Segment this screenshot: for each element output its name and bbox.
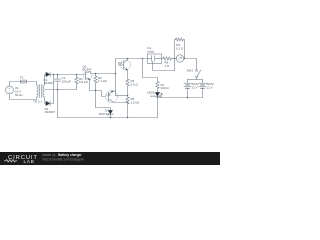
- wire battery split: [188, 79, 203, 81]
- wire switch to split: [196, 78, 198, 80]
- node LED branch tap: [142, 58, 144, 60]
- svg-text:1N4733: 1N4733: [98, 112, 109, 116]
- node R5 bus: [127, 117, 129, 119]
- wire secondary top: [45, 75, 46, 86]
- transistor Q1: [83, 71, 92, 80]
- node LED bus: [157, 97, 159, 99]
- resistor R6: [162, 57, 177, 60]
- switch SW1: [196, 70, 201, 78]
- wire center tap rail: [45, 89, 77, 91]
- label BT2: [207, 82, 215, 89]
- wire Q2 emitter drop: [127, 70, 129, 79]
- voltage source V1: [6, 86, 14, 94]
- zener D3: [108, 110, 114, 117]
- svg-text:0.5 Ω: 0.5 Ω: [131, 83, 139, 87]
- svg-text:relay: relay: [148, 49, 155, 53]
- label F1: [20, 76, 24, 80]
- svg-text:100 µF: 100 µF: [62, 80, 72, 84]
- wire Q3 collector: [113, 101, 128, 104]
- node D-join: [53, 74, 55, 76]
- label V1: [15, 86, 23, 97]
- fuse F1: [21, 80, 27, 83]
- wire fuse to transformer: [27, 82, 37, 86]
- label C1: [62, 76, 72, 83]
- node battery bus: [187, 97, 189, 99]
- svg-text:F1: F1: [20, 76, 24, 80]
- svg-text:1 Ω: 1 Ω: [165, 64, 171, 68]
- label R6: [165, 60, 171, 67]
- wire source bottom: [10, 94, 37, 100]
- svg-text:BC547: BC547: [83, 68, 93, 72]
- wire plus rail: [50, 74, 85, 76]
- node R2 top: [95, 73, 97, 75]
- node R1 top: [76, 74, 78, 76]
- diode D1: [46, 72, 50, 77]
- label BT1: [192, 82, 200, 89]
- svg-text:50 Hz: 50 Hz: [15, 93, 23, 97]
- svg-text:330 Ω: 330 Ω: [161, 86, 170, 90]
- transformer T1: [37, 85, 45, 98]
- wire emitter run: [116, 95, 128, 97]
- resistor R8 shunt: [176, 38, 184, 41]
- label R4: [131, 79, 139, 86]
- resistor R4: [126, 79, 129, 96]
- node zener bus: [110, 117, 112, 119]
- resistor R5: [126, 96, 129, 118]
- label Q3: [107, 93, 111, 97]
- svg-text:SW1: SW1: [187, 69, 194, 73]
- node R2 mid: [95, 90, 97, 92]
- transistor Q3: [106, 91, 118, 103]
- label R7: [161, 83, 170, 90]
- ammeter M1: [176, 55, 183, 62]
- wire riser to top rail: [116, 59, 148, 96]
- label K1: [148, 46, 155, 53]
- node Q2 collector: [127, 58, 129, 60]
- wire Q2 collector to rail: [127, 59, 129, 61]
- LED LED1: [155, 92, 163, 97]
- label D1: [44, 78, 55, 85]
- wire D2 cathode riser: [50, 75, 53, 104]
- node shunt left: [174, 58, 176, 60]
- label D2: [45, 107, 56, 114]
- wire Q3 emitter: [113, 90, 116, 92]
- wire relay bottom loop: [153, 59, 175, 71]
- battery BT1: [184, 80, 191, 98]
- battery BT2: [199, 80, 206, 98]
- wire LED branch: [143, 59, 158, 82]
- svg-text:1.1 kΩ: 1.1 kΩ: [98, 79, 108, 83]
- wire shunt right: [183, 40, 184, 59]
- label D3: [98, 109, 109, 116]
- svg-text:5.6 kΩ: 5.6 kΩ: [79, 80, 89, 84]
- node C1 ground: [57, 89, 59, 91]
- resistor R1: [75, 75, 78, 90]
- footer bar: [0, 152, 220, 165]
- svg-text:drawn by : Battery charger: drawn by : Battery charger: [43, 153, 83, 157]
- label Q2: [118, 61, 122, 65]
- label R2: [98, 76, 108, 83]
- label R1: [79, 77, 89, 84]
- relay K1: [148, 54, 162, 64]
- node collector tee: [115, 73, 117, 75]
- svg-text:1.5 kΩ: 1.5 kΩ: [131, 101, 141, 105]
- transistor Q2: [119, 60, 131, 70]
- node R4 R5 junction: [127, 95, 129, 97]
- wire Q1 emitter drop: [90, 80, 106, 97]
- svg-text:Q2: Q2: [118, 61, 122, 65]
- svg-text:12 V: 12 V: [207, 86, 213, 90]
- svg-text:Q3: Q3: [107, 93, 111, 97]
- node C1 top: [57, 74, 59, 76]
- wire secondary bottom: [45, 97, 46, 104]
- svg-text:TR 2:1: TR 2:1: [33, 99, 42, 103]
- svg-text:LAB: LAB: [24, 159, 35, 165]
- wire battery bus: [158, 97, 203, 99]
- svg-text:red: red: [150, 94, 155, 98]
- resistor R2: [94, 74, 97, 108]
- svg-text:1N4007: 1N4007: [45, 110, 56, 114]
- bottom bus: [58, 117, 158, 119]
- node Q3 collector join: [127, 102, 129, 104]
- label T1: [33, 99, 42, 103]
- diode D2: [46, 101, 50, 106]
- wire Q1 collector run: [90, 72, 116, 74]
- label R5: [131, 97, 141, 104]
- label SW1: [187, 69, 194, 73]
- wire LED bus down: [157, 98, 159, 118]
- wire meter to switch: [184, 59, 197, 70]
- svg-text:1N4007: 1N4007: [44, 81, 55, 85]
- resistor R7: [156, 82, 159, 93]
- svg-text:http://circuitlab.com/c/qkpqwv: http://circuitlab.com/c/qkpqwv: [43, 158, 85, 162]
- label M1: [176, 43, 184, 50]
- wire zener feed: [96, 108, 111, 111]
- capacitor C1: [55, 75, 61, 118]
- label LED1: [147, 91, 155, 98]
- node shunt right: [184, 58, 186, 60]
- wire source top: [10, 82, 21, 87]
- svg-text:12 V: 12 V: [192, 86, 198, 90]
- svg-text:0.1 Ω: 0.1 Ω: [176, 47, 184, 51]
- wire shunt loop: [175, 40, 176, 59]
- label Q1: [83, 64, 93, 71]
